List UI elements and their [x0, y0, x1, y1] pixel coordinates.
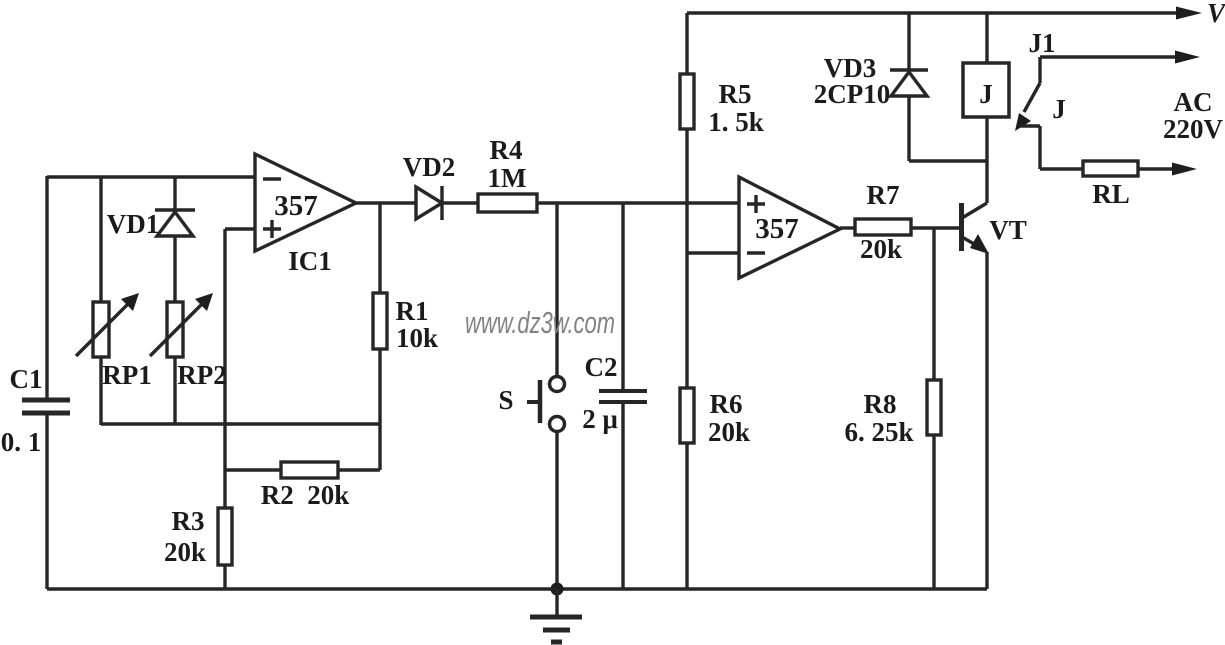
arrow RL output — [1172, 163, 1197, 176]
svg-text:357: 357 — [274, 190, 318, 222]
svg-text:357: 357 — [755, 213, 799, 245]
wire VD1 to RP2 — [173, 236, 176, 302]
wire C1 bottom to ground rail — [45, 415, 48, 589]
wire R2 right to R1 branch — [338, 424, 380, 470]
svg-text:10k: 10k — [396, 323, 438, 353]
wire op-amp2 output — [840, 226, 855, 229]
wire R1 bottom — [378, 349, 381, 424]
wire IC1 noninverting input stub — [225, 227, 255, 230]
pushbutton S — [527, 377, 565, 432]
wire VT emitter to ground rail — [985, 252, 988, 589]
relay coil J — [963, 63, 1009, 117]
potentiometer RP2 — [150, 293, 213, 357]
switch J1 moving arm — [1015, 83, 1040, 131]
svg-text:2 μ: 2 μ — [582, 404, 618, 434]
svg-text:0. 1: 0. 1 — [1, 427, 42, 457]
op-amp U2 357 — [739, 177, 840, 278]
wire switch S top branch — [555, 203, 558, 375]
svg-text:20k: 20k — [860, 234, 902, 264]
svg-text:RL: RL — [1092, 179, 1130, 209]
junction dot ground node — [551, 583, 564, 596]
resistor R1 — [373, 293, 387, 349]
svg-text:1. 5k: 1. 5k — [708, 107, 764, 137]
wire J1 fixed contact — [1020, 126, 1083, 169]
svg-text:R5: R5 — [719, 79, 752, 109]
wire C2 top branch — [621, 203, 624, 391]
resistor RL — [1083, 161, 1138, 176]
arrow V supply — [1176, 7, 1202, 20]
wire relay top branch — [985, 13, 988, 63]
resistor R5 — [680, 74, 694, 129]
wire S bottom to ground rail — [555, 433, 558, 589]
svg-text:www.dz3w.com: www.dz3w.com — [465, 305, 615, 340]
svg-text:V: V — [1207, 0, 1225, 28]
svg-text:IC1: IC1 — [288, 246, 332, 276]
svg-text:R8: R8 — [864, 389, 897, 419]
wire top supply rail — [687, 11, 1180, 14]
capacitor C1 — [22, 400, 70, 413]
svg-text:C1: C1 — [10, 364, 43, 394]
svg-text:VD2: VD2 — [403, 152, 456, 182]
wire VD3 bottom — [907, 96, 910, 161]
potentiometer RP1 — [76, 293, 139, 357]
svg-text:20k: 20k — [164, 537, 206, 567]
svg-text:VD1: VD1 — [107, 209, 160, 239]
op-amp2 minus sign — [747, 251, 765, 254]
wire J1 contact rail — [1040, 55, 1178, 58]
wire VD1 branch top — [173, 177, 176, 212]
resistor R3 — [218, 508, 232, 565]
svg-text:2CP10: 2CP10 — [814, 79, 891, 109]
svg-text:20k: 20k — [708, 417, 750, 447]
diode VD1 — [155, 210, 195, 236]
IC1 plus sign — [263, 220, 281, 238]
wire R7 to VT base — [911, 226, 960, 229]
svg-text:J1: J1 — [1029, 28, 1056, 58]
svg-text:220V: 220V — [1163, 114, 1224, 144]
transistor Q1 VT — [962, 203, 990, 254]
resistor R4 — [478, 194, 537, 212]
wire R3 bottom — [223, 565, 226, 589]
wire RP1 top branch — [99, 177, 102, 302]
resistor R8 — [927, 380, 941, 435]
svg-text:VT: VT — [989, 215, 1027, 245]
svg-text:R2 20k: R2 20k — [261, 480, 350, 510]
wire IC1 output — [356, 201, 416, 204]
wire R1 top branch — [378, 203, 381, 293]
wire VD3 branch top — [907, 13, 910, 72]
resistor R6 — [680, 388, 694, 443]
op-amp2 plus sign — [747, 195, 765, 213]
wire RP1 bottom — [99, 357, 102, 425]
IC1 minus sign — [263, 177, 281, 180]
wire IC1 noninverting input vertical — [223, 229, 226, 508]
svg-text:R7: R7 — [867, 180, 900, 210]
svg-text:S: S — [498, 385, 513, 415]
wire RP2 bottom — [173, 357, 176, 425]
wire VD2 to R4 — [442, 201, 478, 204]
svg-text:RP2: RP2 — [177, 360, 227, 390]
arrow J1 rail — [1175, 51, 1200, 64]
op-amp U1 IC1 — [255, 154, 356, 251]
svg-text:C2: C2 — [585, 352, 618, 382]
wire VD3 to relay bottom node — [909, 159, 987, 162]
svg-text:RP1: RP1 — [102, 360, 152, 390]
wire bottom ground rail — [47, 587, 987, 590]
wire R5 R6 vertical branch — [685, 13, 688, 589]
wire C2 bottom to ground rail — [621, 404, 624, 589]
wire R4 to op-amp2 noninverting input — [537, 201, 739, 204]
wire op-amp2 inverting input — [687, 251, 739, 254]
svg-text:1M: 1M — [488, 163, 527, 193]
svg-text:6. 25k: 6. 25k — [844, 417, 913, 447]
capacitor C2 — [599, 391, 647, 402]
wire RL right — [1138, 167, 1176, 170]
wire VT collector to relay — [985, 117, 988, 203]
wire left vertical to C1 — [45, 176, 48, 398]
diode VD3 — [890, 70, 928, 96]
wire node row y424 — [101, 422, 380, 425]
wire R8 bottom — [932, 435, 935, 589]
wire top-left rail to IC1 inverting input — [47, 175, 255, 178]
svg-text:R1: R1 — [396, 296, 429, 326]
svg-text:R6: R6 — [710, 389, 743, 419]
wire J1 contact pivot — [1038, 57, 1041, 83]
diode VD2 — [416, 186, 442, 220]
svg-text:R4: R4 — [490, 135, 523, 165]
resistor R2 — [281, 462, 338, 478]
svg-text:R3: R3 — [172, 506, 205, 536]
resistor R7 — [855, 219, 911, 235]
ground — [530, 589, 582, 642]
wire R2 left stub — [225, 468, 281, 471]
svg-text:J: J — [979, 79, 993, 109]
svg-text:AC: AC — [1174, 87, 1213, 117]
wire R8 top branch — [932, 228, 935, 380]
svg-text:J: J — [1052, 94, 1066, 124]
